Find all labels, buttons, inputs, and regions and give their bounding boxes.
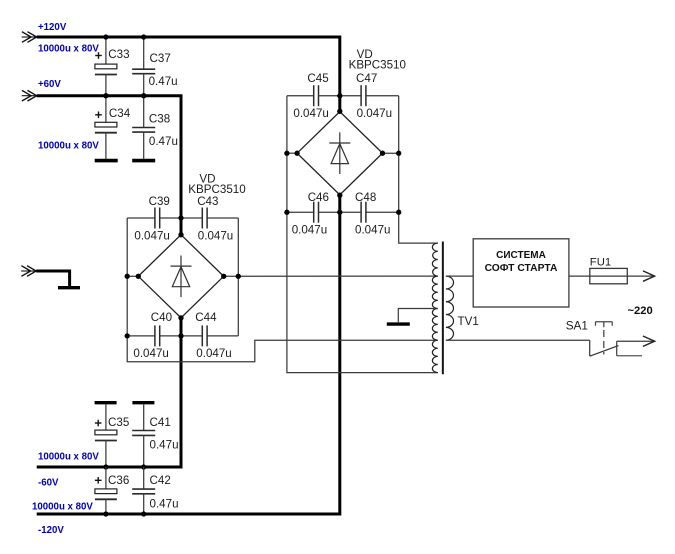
junction dots C46/C48 row <box>284 210 289 215</box>
plus sign C33 <box>95 55 102 57</box>
arrowhead switch output <box>643 336 655 346</box>
svg-text:FU1: FU1 <box>590 257 611 269</box>
svg-text:SA1: SA1 <box>566 319 588 333</box>
wire C39/C43 row (top row left bridge) <box>127 217 155 219</box>
svg-text:+60V: +60V <box>38 79 61 90</box>
junction dot row x thick wire <box>337 93 342 98</box>
svg-text:C38: C38 <box>149 112 170 125</box>
ground bar at transformer center tap <box>387 322 410 325</box>
soft start system box <box>473 239 569 307</box>
junction dot VD1 top node <box>178 232 183 237</box>
svg-text:0.047u: 0.047u <box>292 224 327 237</box>
svg-text:0.47u: 0.47u <box>149 75 178 88</box>
svg-text:C47: C47 <box>356 72 377 85</box>
transformer core lines <box>442 242 444 375</box>
ground bar under C34 <box>95 159 118 163</box>
wire VD2 bottom node down to -120V rail and rail to port <box>37 195 340 514</box>
junction dot row1 x thick wire <box>178 215 183 220</box>
wire left vertex stub <box>127 275 138 277</box>
wire VD1 bottom node down to -60V rail and rail to port <box>37 318 181 467</box>
capacitor C33 10000u (electrolytic) <box>105 37 107 64</box>
capacitor C34 10000u (electrolytic) <box>105 96 107 123</box>
svg-text:0.047u: 0.047u <box>196 347 231 360</box>
bridge rectifier VD KBPC3510 (left) diamond and diode <box>138 235 223 318</box>
wire ground stub from arrow <box>36 271 69 286</box>
svg-text:C42: C42 <box>150 474 171 487</box>
wire right vertex to AC line towards transformer tap2 <box>224 275 438 277</box>
junction dot VD2 top node <box>337 109 342 114</box>
svg-text:0.47u: 0.47u <box>149 135 178 148</box>
capacitor C42 0.47u <box>143 467 145 489</box>
wire switch output to arrow <box>617 340 655 342</box>
junction dots right vertex top bridge <box>380 151 385 156</box>
ground bar above C41 <box>132 401 154 404</box>
wire transformer secondary top to soft-start box <box>446 275 473 277</box>
svg-text:KBPC3510: KBPC3510 <box>349 59 406 72</box>
svg-text:C44: C44 <box>195 311 217 324</box>
capacitor C40 0.047u <box>154 325 156 346</box>
svg-text:0.47u: 0.47u <box>150 439 179 452</box>
svg-text:C37: C37 <box>150 52 171 65</box>
ground bar above C35 <box>95 401 117 404</box>
capacitor C35 10000u (electrolytic) <box>105 404 107 430</box>
plus sign C35 <box>95 422 102 424</box>
svg-text:СОФТ СТАРТА: СОФТ СТАРТА <box>485 263 558 274</box>
fuse FU1 <box>590 268 628 283</box>
transformer TV1 secondary winding (right) <box>446 276 454 340</box>
capacitor C44 0.047u <box>201 325 203 346</box>
svg-text:-60V: -60V <box>38 478 59 489</box>
junction dots right vertex <box>221 274 226 279</box>
svg-text:TV1: TV1 <box>458 315 479 328</box>
svg-text:C39: C39 <box>149 195 170 208</box>
svg-text:0.047u: 0.047u <box>198 229 233 242</box>
junction dot VD2 bottom node <box>337 193 342 198</box>
capacitor C38 0.47u <box>143 96 145 128</box>
svg-text:C43: C43 <box>197 195 218 208</box>
junction dots bottom row <box>125 333 130 338</box>
transformer TV1 primary winding (left, tapped) <box>432 243 437 373</box>
svg-text:0.047u: 0.047u <box>293 107 328 120</box>
svg-text:СИСТЕМА: СИСТЕМА <box>496 250 546 261</box>
svg-text:C33: C33 <box>108 48 129 61</box>
junction dots +60V rail <box>103 93 108 98</box>
svg-text:10000u x 80V: 10000u x 80V <box>32 502 93 513</box>
capacitor C41 0.47u <box>143 404 145 430</box>
wire right edge of bridge box <box>237 218 239 336</box>
junction dots left vertex top bridge <box>284 151 289 156</box>
junction dots -120V rail <box>103 511 108 516</box>
switch SA1 actuator T-bar with dashed link <box>596 321 613 323</box>
svg-text:C40: C40 <box>151 311 172 324</box>
ground bar terminal (chassis) <box>58 286 80 289</box>
switch SA1 blade <box>590 346 619 357</box>
svg-text:C48: C48 <box>355 191 376 204</box>
svg-text:C34: C34 <box>109 107 131 120</box>
junction dot VD1 bottom node <box>178 315 183 320</box>
wire +60V rail to corner down to bridge VD1 top node <box>37 96 181 235</box>
svg-text:C45: C45 <box>307 72 328 85</box>
svg-text:10000u x 80V: 10000u x 80V <box>38 452 99 463</box>
switch SA1 fixed contact bracket <box>616 341 618 356</box>
junction dots left vertex <box>125 274 130 279</box>
wire C45/C47 row (top row top bridge) <box>287 95 314 97</box>
arrowhead line output <box>643 271 655 281</box>
port +120V input arrow <box>22 32 37 43</box>
plus sign C34 <box>95 114 102 116</box>
svg-text:0.047u: 0.047u <box>134 229 169 242</box>
capacitor C39 0.047u <box>154 208 156 229</box>
port +60V input arrow <box>22 90 37 101</box>
svg-text:~220: ~220 <box>628 305 653 317</box>
transformer ground tap wire <box>398 309 438 323</box>
svg-text:0.047u: 0.047u <box>357 107 392 120</box>
wire +120V rail to top-right corner down to bridge VD2 top node <box>37 37 340 111</box>
svg-text:C36: C36 <box>108 474 129 487</box>
capacitor C36 10000u (electrolytic) <box>105 467 107 489</box>
wire right edge of top bridge box down to transformer top tap <box>399 96 438 243</box>
svg-text:0.047u: 0.047u <box>355 224 390 237</box>
bridge rectifier VD KBPC3510 (top) diamond and diode <box>297 112 382 195</box>
plus sign C36 <box>95 479 102 481</box>
svg-text:10000u x 80V: 10000u x 80V <box>38 141 99 152</box>
svg-text:0.047u: 0.047u <box>133 347 168 360</box>
svg-text:-120V: -120V <box>38 525 64 536</box>
capacitor C46 0.047u <box>313 202 315 223</box>
wire C46/C48 row (bottom row top bridge) <box>287 211 314 213</box>
wire right vertex stub top bridge <box>383 152 399 154</box>
svg-text:C35: C35 <box>108 416 129 429</box>
capacitor C45 0.047u <box>313 85 315 106</box>
svg-text:C46: C46 <box>308 191 329 204</box>
svg-text:C41: C41 <box>150 416 171 429</box>
svg-text:0.47u: 0.47u <box>150 498 179 511</box>
svg-text:10000u x 80V: 10000u x 80V <box>38 44 99 55</box>
wire transformer secondary bottom to switch SA1 <box>446 339 590 341</box>
switch SA1 pole drop <box>589 340 591 356</box>
wire left vertex stub top bridge <box>287 152 297 154</box>
ground bar under C38 <box>132 159 155 163</box>
wire C40/C44 row (bottom row left bridge) <box>127 335 155 337</box>
wire left edge of bridge box down to lower run and to transformer tap3 <box>127 218 438 362</box>
port GND input arrow <box>21 266 36 277</box>
capacitor C47 0.047u <box>360 85 362 106</box>
capacitor C48 0.047u <box>360 202 362 223</box>
wire box output to line arrow <box>569 275 654 277</box>
junction dots -60V rail <box>103 464 108 469</box>
wire left edge of top bridge box down to transformer bottom tap <box>287 96 438 373</box>
capacitor C37 0.47u <box>143 37 145 69</box>
junction dots +120V rail <box>103 34 108 39</box>
capacitor C43 0.047u <box>201 208 203 229</box>
svg-text:+120V: +120V <box>38 22 67 33</box>
